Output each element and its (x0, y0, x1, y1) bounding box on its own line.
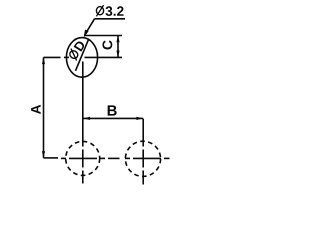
leader arrowhead at circle (84, 30, 89, 38)
B right arrow (136, 117, 143, 120)
C arrow up (116, 36, 119, 43)
right circle horizontal centerline (125, 157, 130, 159)
label C (rotated) (102, 40, 112, 49)
label B (108, 105, 117, 115)
A arrow up (42, 57, 45, 64)
B right extension / right circle vertical centerline (142, 119, 144, 147)
A bottom extension line (44, 157, 59, 159)
dimension A line (43, 57, 45, 157)
right bottom circle (dashed) (125, 141, 160, 176)
big circle (hole ⌀D, drawn as ellipse) (66, 38, 97, 78)
B left arrow (83, 117, 90, 120)
label A (rotated) (31, 105, 40, 114)
diameter line ⌀D (diagonal through circle) (76, 40, 89, 71)
horizontal centerline of big circle / A top extension / C bottom extension (44, 56, 61, 58)
leader line for ⌀3.2 (95, 18, 126, 20)
left circle horizontal centerline (61, 157, 66, 159)
dimension B line (83, 117, 143, 119)
label ⌀D (rotated along diagonal) (67, 39, 86, 60)
label ⌀3.2 (96, 5, 123, 16)
A arrow down (42, 151, 45, 158)
C top extension line (tangent to circle top) (84, 35, 122, 37)
dimension C line (117, 36, 119, 58)
C arrow down (116, 51, 119, 58)
vertical centerline from big circle down to left bottom circle (82, 62, 84, 147)
left bottom circle (dashed) (66, 141, 100, 175)
